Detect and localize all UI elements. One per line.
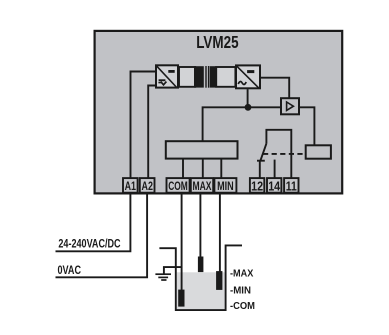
terminal COM — [167, 178, 190, 193]
svg-text:A2: A2 — [142, 179, 154, 193]
terminal MAX — [191, 178, 213, 193]
terminal 14 — [267, 178, 281, 193]
relay coil K1 — [306, 145, 331, 158]
electrode MAX — [198, 257, 204, 273]
svg-text:-COM: -COM — [230, 300, 255, 312]
svg-text:0VAC: 0VAC — [58, 263, 82, 277]
svg-text:MIN: MIN — [217, 181, 234, 193]
wire U2 output right then down to amplifier — [260, 78, 289, 99]
input conditioning box — [166, 141, 238, 158]
terminal 12 — [250, 178, 264, 193]
terminal A1 — [123, 178, 138, 193]
relay contact: pole 11 wire — [266, 130, 291, 179]
tank walls — [159, 245, 242, 310]
wire A2 to converter U1 input — [148, 86, 156, 179]
wire input box to MAX — [202, 159, 204, 179]
terminal A2 — [140, 178, 155, 193]
supply wire N (A2) — [56, 194, 148, 278]
wire U2 bottom to junction — [247, 89, 249, 107]
amplifier A1 (comparator) — [281, 98, 299, 114]
svg-text:A1: A1 — [125, 179, 137, 193]
relay contact blade — [260, 144, 266, 161]
svg-text:14: 14 — [268, 178, 281, 193]
converter U1 (AC/DC supply) — [156, 65, 178, 88]
terminal MIN — [214, 178, 236, 193]
svg-text:-MAX: -MAX — [230, 268, 253, 280]
wire bus y107 from input box corner to amplifier — [203, 107, 281, 141]
relay module body LVM25 — [95, 31, 343, 194]
converter U2 (DC/AC sensing oscillator) — [236, 65, 260, 88]
junction node — [245, 104, 252, 111]
tank liquid — [177, 272, 225, 309]
svg-text:12: 12 — [251, 178, 263, 193]
svg-text:11: 11 — [286, 178, 297, 193]
wire COM to electrode — [181, 194, 183, 291]
wire amplifier output to relay coil — [299, 107, 314, 145]
wire MIN to electrode — [219, 194, 221, 272]
wire A1 to converter U1 input — [131, 72, 157, 179]
contact tick — [257, 160, 265, 162]
ground symbol — [155, 274, 171, 280]
wire input box to MIN — [220, 159, 222, 179]
svg-text:MAX: MAX — [193, 181, 212, 193]
mechanical link (dashed) coil to contact — [263, 153, 306, 155]
electrode COM — [178, 290, 184, 307]
svg-text:-MIN: -MIN — [230, 284, 251, 296]
wire contact 14 — [274, 160, 276, 179]
svg-text:COM: COM — [168, 181, 188, 193]
ground branch wire — [164, 267, 183, 273]
wire input box to COM — [182, 159, 184, 179]
wire contact 12 — [259, 161, 261, 179]
svg-text:LVM25: LVM25 — [196, 32, 239, 52]
terminal 11 — [284, 178, 298, 193]
supply wire L (A1) — [56, 194, 131, 252]
wire MAX to electrode — [199, 194, 201, 258]
electrode MIN — [216, 271, 222, 290]
transformer T1 — [179, 66, 235, 88]
svg-text:24-240VAC/DC: 24-240VAC/DC — [58, 237, 120, 251]
